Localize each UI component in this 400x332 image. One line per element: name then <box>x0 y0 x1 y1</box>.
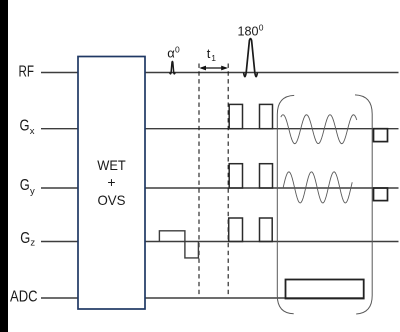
svg-text:y: y <box>30 186 35 197</box>
left black sidebar <box>0 0 8 332</box>
waveform Gx EPI readout sine <box>281 115 357 144</box>
dashed line right (t1 end) <box>227 64 229 298</box>
label alpha-0 <box>167 45 180 61</box>
svg-text:x: x <box>30 126 35 137</box>
svg-text:ADC: ADC <box>10 289 38 306</box>
ADC acquisition window rect <box>286 280 364 299</box>
label t1 <box>207 46 217 63</box>
block U1 WET+OVS box <box>78 57 145 310</box>
gradient Gz crusher rect 1 <box>229 218 243 242</box>
svg-text:RF: RF <box>19 64 35 81</box>
svg-text:G: G <box>20 177 30 194</box>
wire Gx line <box>41 128 399 130</box>
gradient Gx prephase rect 1 <box>229 104 242 128</box>
svg-text:1: 1 <box>211 53 216 63</box>
dashed line left (t1 start) <box>198 64 200 298</box>
svg-text:0: 0 <box>175 45 180 55</box>
waveform Gy EPI readout sine <box>283 172 352 203</box>
gradient Gx prephase rect 2 <box>260 104 273 128</box>
node Gx label <box>20 118 35 138</box>
node Gz label <box>20 230 35 249</box>
wire ADC line <box>41 297 364 299</box>
bracket right parenthesis <box>355 95 372 314</box>
node Gy label <box>20 177 35 197</box>
label 180-0 <box>238 23 264 39</box>
wire Gy line <box>41 187 399 189</box>
svg-text:G: G <box>20 230 30 247</box>
svg-text:t: t <box>207 46 211 61</box>
gradient Gz crusher rect 2 <box>260 218 273 242</box>
gradient Gx rewinder square <box>374 129 388 142</box>
svg-text:0: 0 <box>259 23 264 33</box>
wire Gz line <box>41 241 399 243</box>
svg-text:OVS: OVS <box>98 192 126 208</box>
pulse 180 refocusing sinc <box>244 39 258 77</box>
gradient Gy prephase rect 1 <box>229 164 242 188</box>
arrow t1 double-headed <box>199 66 228 71</box>
wire RF line <box>41 72 399 74</box>
svg-text:180: 180 <box>238 24 259 39</box>
svg-text:+: + <box>107 174 115 190</box>
pulse alpha RF excitation <box>170 61 176 73</box>
svg-text:WET: WET <box>97 157 126 173</box>
gradient Gz slice-select bipolar <box>159 231 198 258</box>
svg-text:G: G <box>20 118 30 135</box>
gradient Gy prephase rect 2 <box>260 164 273 188</box>
bracket left parenthesis <box>277 95 294 313</box>
svg-text:z: z <box>30 238 35 249</box>
gradient Gy rewinder square <box>374 188 388 201</box>
